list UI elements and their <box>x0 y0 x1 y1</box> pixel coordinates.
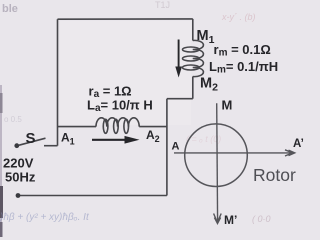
svg-text:ble: ble <box>2 3 18 15</box>
rotor circle <box>185 124 248 187</box>
svg-text:A: A <box>172 141 180 153</box>
wire M-branch vertical upper <box>192 19 194 41</box>
svg-text:x-y´ . (b): x-y´ . (b) <box>221 12 256 22</box>
svg-text:)ħβ + (y² + xy)ħβₒ. It: )ħβ + (y² + xy)ħβₒ. It <box>0 212 90 223</box>
source terminal dot top <box>14 143 19 148</box>
current arrow armature <box>92 136 140 144</box>
wire right vertical <box>166 99 168 196</box>
svg-text:220V: 220V <box>3 156 34 171</box>
inductor Lm main winding <box>193 40 204 76</box>
svg-text:T1J: T1J <box>155 0 170 10</box>
wire left vertical <box>57 19 59 146</box>
inductor La armature winding <box>96 118 139 127</box>
svg-text:Rotor: Rotor <box>253 165 296 185</box>
current arrow M-branch down <box>175 40 182 78</box>
svg-text:( 0·0: ( 0·0 <box>252 214 271 224</box>
source terminal dot bottom <box>16 193 21 198</box>
wire armature left <box>58 126 97 128</box>
wire switch contact stub <box>44 145 58 147</box>
svg-text:50Hz: 50Hz <box>5 170 36 185</box>
left scan edge strip <box>0 85 2 237</box>
rotor axis A-A' horizontal <box>174 150 295 156</box>
wire M-branch vertical lower <box>192 77 194 99</box>
svg-text:M’: M’ <box>224 213 237 227</box>
svg-text:A’: A’ <box>293 138 304 150</box>
rotor axis M-M' vertical <box>214 103 222 223</box>
wire jog horizontal <box>167 98 193 100</box>
wire armature right <box>139 126 167 128</box>
wire bottom horizontal <box>18 195 167 197</box>
svg-text:o 0.5: o 0.5 <box>4 115 22 124</box>
svg-text:M: M <box>222 98 233 113</box>
svg-text:S: S <box>26 130 36 147</box>
wire top horizontal <box>58 18 193 20</box>
switch S blade <box>19 138 46 145</box>
